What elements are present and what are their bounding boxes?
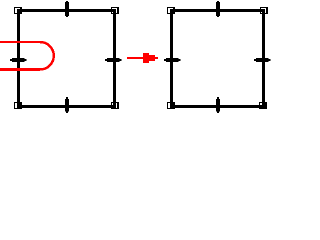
corner handle bottom-left (left square) — [14, 102, 22, 109]
right square right edge — [262, 9, 265, 108]
midpoint tick top (left square) — [65, 1, 69, 17]
corner handle top-left (left square) — [14, 7, 22, 14]
red arrow shaft — [127, 57, 143, 59]
corner handle top-right (right square) — [260, 7, 268, 14]
left square bottom edge — [17, 105, 116, 108]
midpoint tick bottom (right square) — [216, 97, 220, 113]
midpoint tick top (right square) — [216, 1, 220, 17]
left square top edge — [17, 9, 116, 12]
red slot feature right arc — [40, 42, 54, 70]
left square right edge — [113, 9, 116, 108]
midpoint tick left (left square) — [10, 58, 27, 62]
corner handle bottom-right (left square) — [111, 102, 119, 109]
corner handle top-left (right square) — [167, 7, 175, 14]
left square left edge — [17, 9, 20, 108]
midpoint tick left (right square) — [164, 58, 181, 62]
red arrow head (stepped) — [143, 53, 158, 63]
midpoint tick bottom (left square) — [65, 97, 69, 113]
right square bottom edge — [170, 105, 265, 108]
corner handle top-right (left square) — [111, 7, 119, 14]
corner handle bottom-left (right square) — [167, 102, 175, 109]
right square top edge — [170, 9, 265, 12]
red slot feature top line — [0, 41, 40, 43]
midpoint tick right (right square) — [254, 58, 271, 62]
midpoint tick right (left square) — [105, 58, 122, 62]
corner handle bottom-right (right square) — [259, 102, 267, 109]
right square left edge — [170, 9, 173, 108]
red slot feature bottom line — [0, 68, 40, 71]
